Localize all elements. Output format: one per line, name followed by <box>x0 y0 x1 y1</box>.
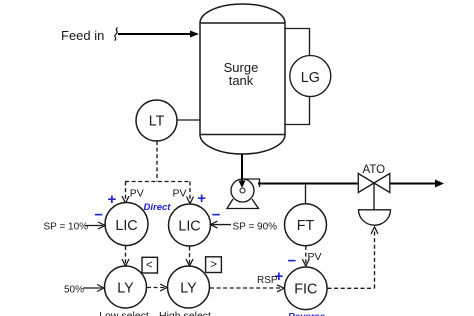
svg-text:−: − <box>212 206 221 223</box>
svg-text:PV: PV <box>130 188 144 200</box>
svg-text:Reverse: Reverse <box>288 311 326 316</box>
svg-text:PV: PV <box>173 188 187 200</box>
svg-text:High select: High select <box>159 310 211 316</box>
svg-text:<: < <box>146 259 153 271</box>
svg-text:LT: LT <box>149 114 165 130</box>
svg-text:ATO: ATO <box>363 164 386 176</box>
svg-text:+: + <box>275 268 284 285</box>
svg-text:>: > <box>210 259 217 271</box>
svg-text:LIC: LIC <box>178 219 200 235</box>
svg-text:SP = 90%: SP = 90% <box>233 221 278 232</box>
svg-text:−: − <box>94 206 103 223</box>
svg-text:+: + <box>197 190 206 207</box>
svg-text:LIC: LIC <box>115 218 137 234</box>
svg-text:FIC: FIC <box>294 282 317 298</box>
svg-text:LY: LY <box>117 280 134 296</box>
svg-text:Direct: Direct <box>144 202 172 213</box>
svg-text:FT: FT <box>297 218 315 234</box>
svg-text:LG: LG <box>301 70 320 86</box>
svg-text:SP = 10%: SP = 10% <box>44 222 89 233</box>
svg-text:50%: 50% <box>64 284 84 295</box>
svg-text:Low select: Low select <box>99 310 149 316</box>
svg-text:tank: tank <box>229 73 254 88</box>
svg-text:Feed in: Feed in <box>61 28 104 43</box>
svg-text:−: − <box>288 253 297 270</box>
svg-text:PV: PV <box>308 251 322 263</box>
svg-text:LY: LY <box>180 280 197 296</box>
